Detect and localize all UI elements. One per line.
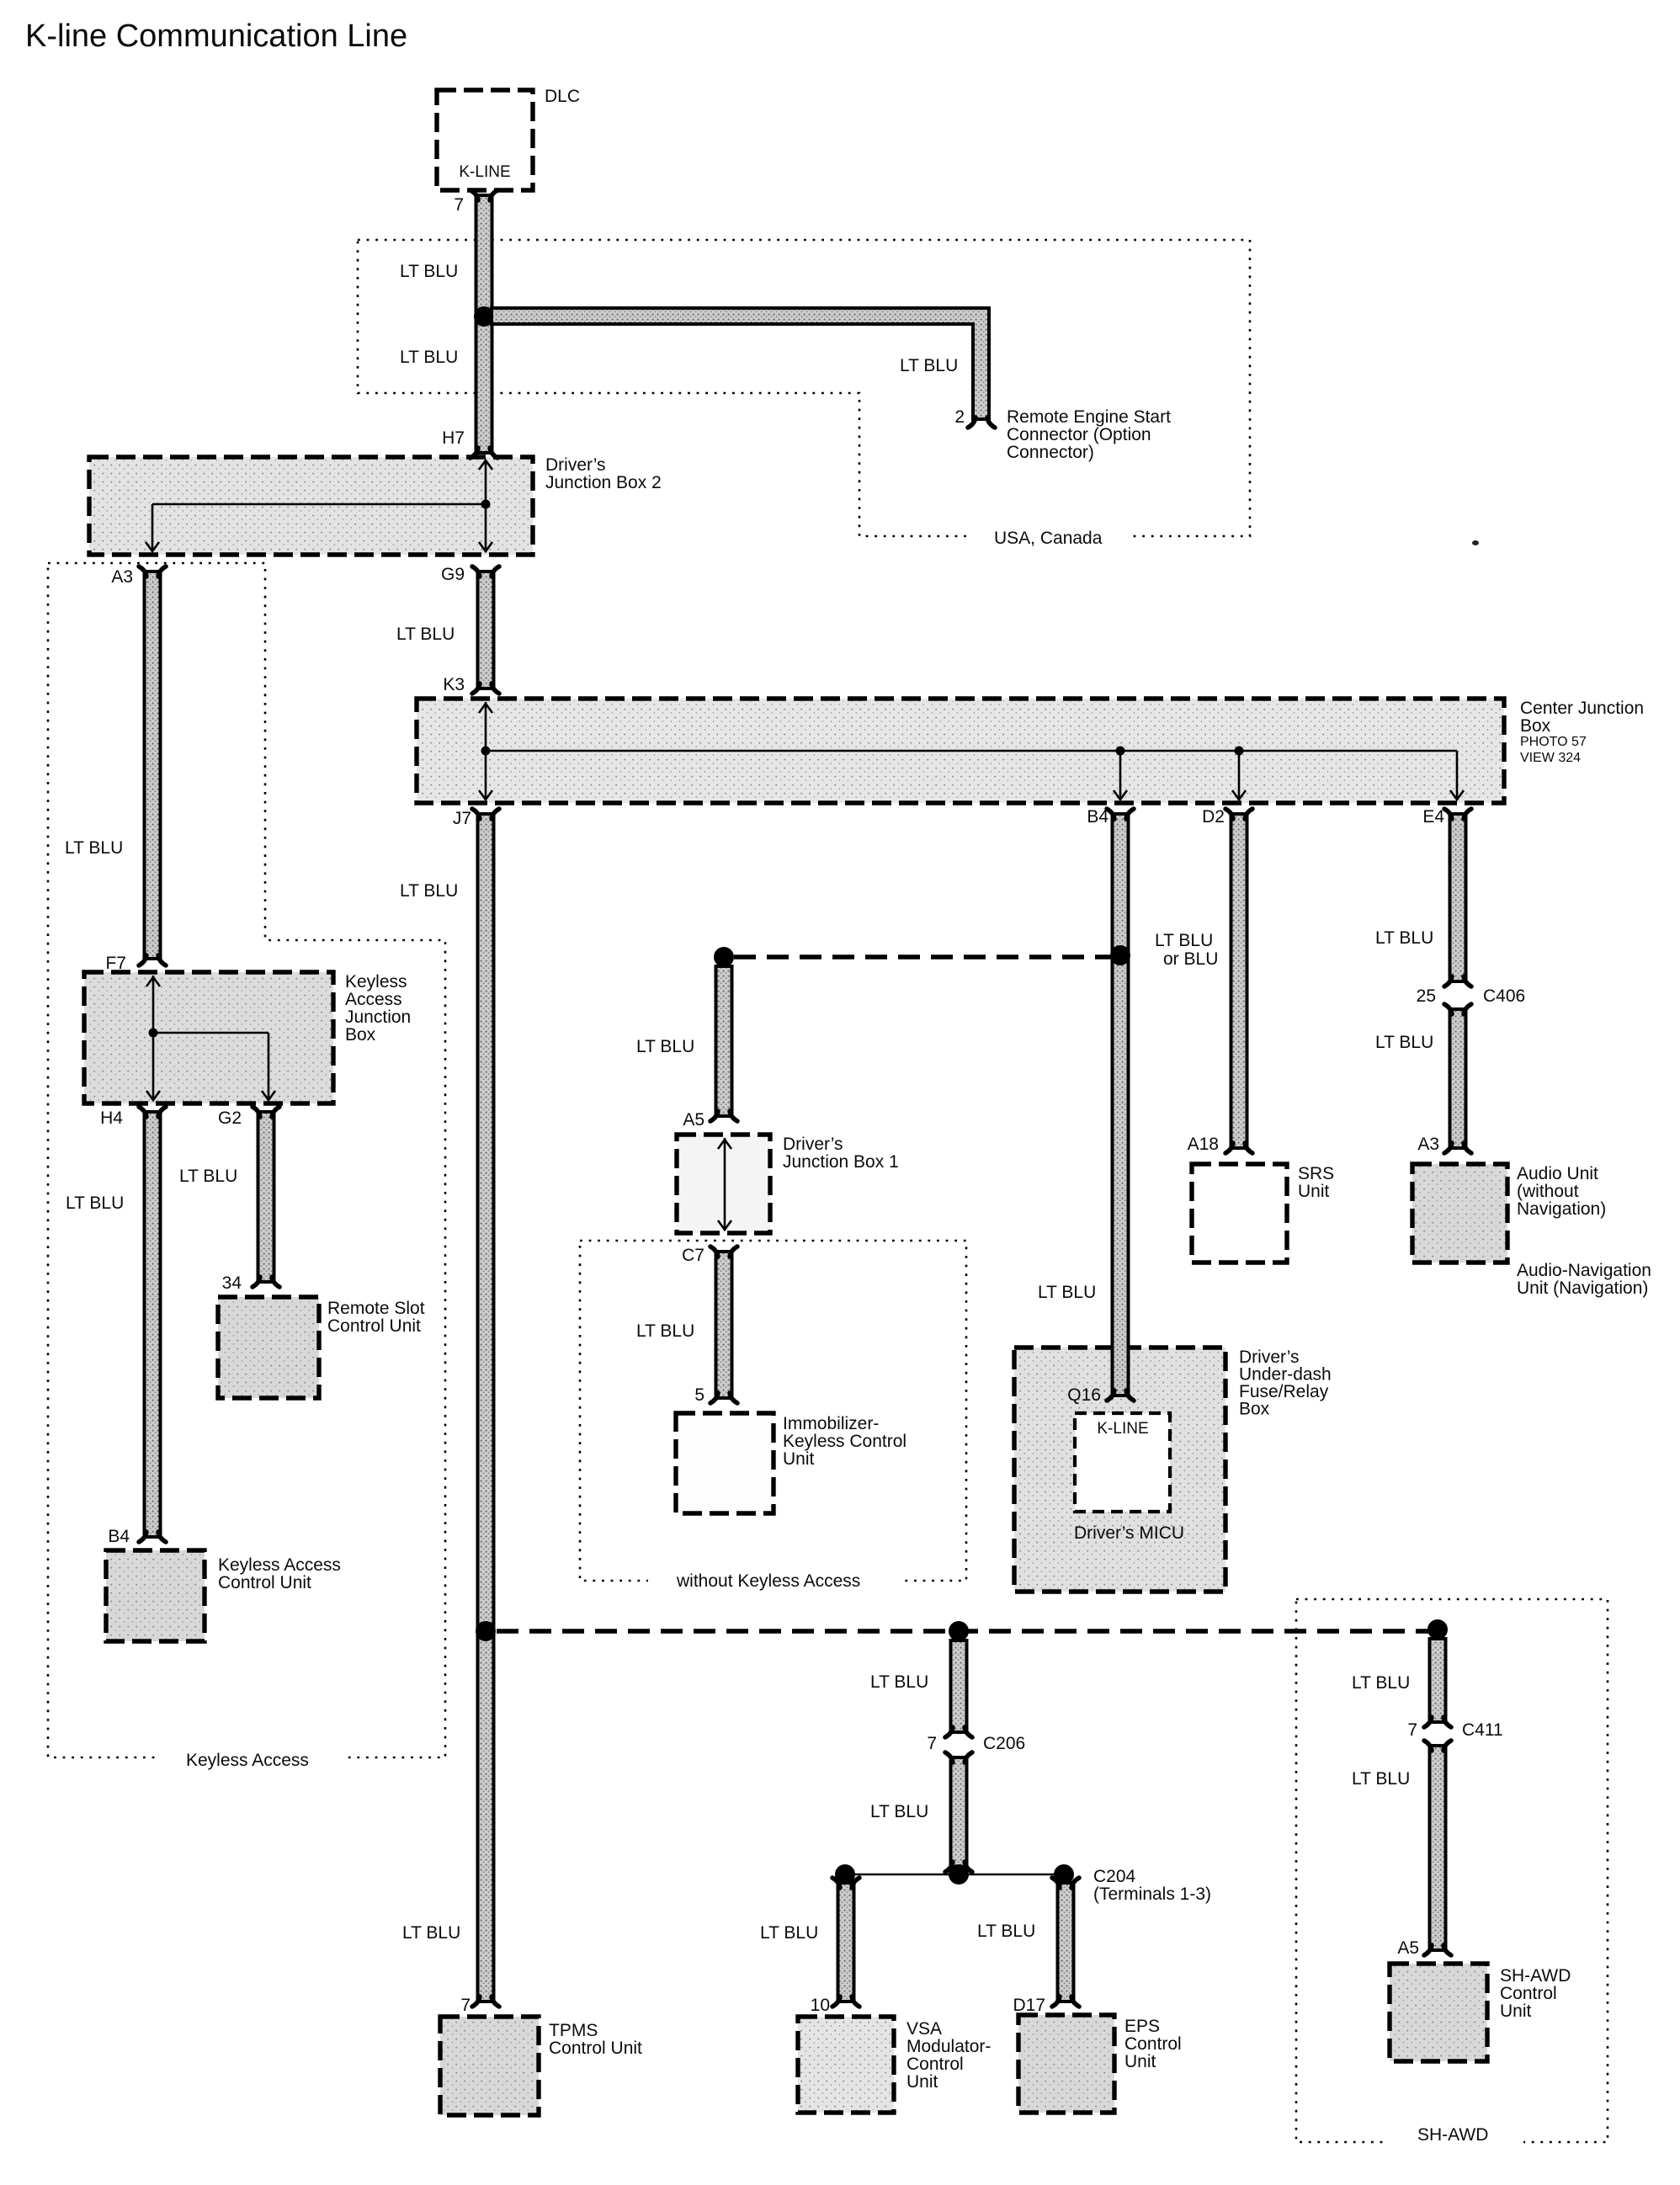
svg-text:7: 7 [927, 1734, 937, 1753]
svg-text:LT BLU: LT BLU [400, 881, 458, 901]
svg-text:Unit: Unit [1124, 2052, 1156, 2071]
svg-text:Unit: Unit [783, 1449, 815, 1469]
svg-text:(Terminals 1-3): (Terminals 1-3) [1093, 1885, 1211, 1904]
svg-text:LT BLU: LT BLU [760, 1923, 818, 1943]
svg-text:Unit: Unit [1500, 2002, 1532, 2021]
svg-text:EPS: EPS [1124, 2017, 1160, 2036]
svg-text:C206: C206 [983, 1734, 1025, 1753]
svg-text:LT BLU: LT BLU [636, 1321, 694, 1341]
svg-text:Driver’s: Driver’s [545, 455, 606, 475]
svg-text:E4: E4 [1422, 807, 1444, 827]
svg-text:LT BLU: LT BLU [900, 356, 958, 375]
svg-text:A3: A3 [1417, 1135, 1439, 1154]
svg-text:Driver’s: Driver’s [783, 1135, 843, 1154]
svg-text:LT BLU: LT BLU [396, 625, 455, 644]
svg-text:7: 7 [1407, 1720, 1417, 1740]
svg-text:Control Unit: Control Unit [549, 2039, 642, 2058]
svg-text:Unit: Unit [1298, 1182, 1330, 1201]
svg-text:A5: A5 [683, 1110, 704, 1130]
svg-text:Junction: Junction [345, 1007, 411, 1027]
svg-text:K-LINE: K-LINE [1097, 1420, 1148, 1438]
svg-text:Unit (Navigation): Unit (Navigation) [1517, 1279, 1648, 1298]
svg-text:B4: B4 [108, 1527, 130, 1546]
svg-text:Connector): Connector) [1007, 443, 1094, 462]
svg-text:A18: A18 [1188, 1135, 1219, 1154]
svg-text:SRS: SRS [1298, 1164, 1334, 1183]
svg-text:7: 7 [460, 1996, 471, 2015]
svg-text:LT BLU: LT BLU [1352, 1673, 1410, 1693]
svg-text:J7: J7 [453, 809, 471, 828]
svg-text:VIEW 324: VIEW 324 [1520, 751, 1581, 765]
svg-text:Modulator-: Modulator- [906, 2037, 991, 2056]
svg-text:Control: Control [1500, 1984, 1557, 2003]
svg-text:10: 10 [811, 1996, 830, 2015]
svg-text:B4: B4 [1087, 807, 1108, 827]
svg-text:LT BLU: LT BLU [977, 1922, 1035, 1941]
svg-text:LT BLU: LT BLU [870, 1672, 928, 1692]
svg-text:LT BLU: LT BLU [402, 1923, 460, 1943]
svg-text:LT BLU: LT BLU [65, 838, 123, 858]
svg-text:Keyless Access: Keyless Access [218, 1555, 341, 1575]
svg-text:Center Junction: Center Junction [1520, 699, 1644, 718]
svg-text:LT BLU: LT BLU [400, 262, 458, 281]
svg-text:LT BLU: LT BLU [179, 1167, 237, 1186]
svg-text:TPMS: TPMS [549, 2021, 598, 2040]
svg-text:LT BLU: LT BLU [1375, 1033, 1433, 1052]
svg-text:Keyless Control: Keyless Control [783, 1432, 906, 1451]
svg-text:D17: D17 [1013, 1996, 1045, 2015]
svg-text:USA, Canada: USA, Canada [994, 529, 1103, 548]
svg-text:Audio-Navigation: Audio-Navigation [1517, 1261, 1651, 1280]
svg-text:or BLU: or BLU [1163, 949, 1218, 969]
svg-text:Remote Engine Start: Remote Engine Start [1007, 407, 1171, 427]
svg-text:Immobilizer-: Immobilizer- [783, 1414, 879, 1433]
svg-text:7: 7 [454, 195, 464, 215]
svg-text:F7: F7 [105, 954, 126, 973]
svg-text:LT BLU: LT BLU [400, 348, 458, 367]
svg-text:25: 25 [1417, 986, 1436, 1006]
svg-text:VSA: VSA [906, 2019, 942, 2039]
svg-text:LT BLU: LT BLU [1375, 928, 1433, 948]
svg-text:without Keyless Access: without Keyless Access [676, 1571, 860, 1591]
svg-text:Box: Box [1239, 1400, 1270, 1419]
svg-text:LT BLU: LT BLU [1352, 1769, 1410, 1789]
svg-text:K-line Communication Line: K-line Communication Line [25, 19, 407, 54]
svg-text:Box: Box [1520, 716, 1551, 736]
svg-text:LT BLU: LT BLU [66, 1194, 124, 1213]
svg-text:SH-AWD: SH-AWD [1417, 2125, 1488, 2145]
svg-text:A5: A5 [1397, 1938, 1419, 1958]
svg-text:C411: C411 [1462, 1720, 1503, 1740]
svg-text:Unit: Unit [906, 2072, 938, 2092]
svg-text:Junction Box 2: Junction Box 2 [545, 473, 662, 492]
svg-text:PHOTO 57: PHOTO 57 [1520, 735, 1587, 749]
svg-text:Q16: Q16 [1067, 1385, 1101, 1405]
svg-text:Box: Box [345, 1025, 376, 1045]
svg-text:Control Unit: Control Unit [218, 1573, 311, 1592]
svg-text:2: 2 [954, 407, 965, 427]
svg-text:D2: D2 [1202, 807, 1225, 827]
svg-text:(without: (without [1517, 1182, 1579, 1201]
svg-text:34: 34 [222, 1273, 242, 1293]
svg-text:LT BLU: LT BLU [870, 1802, 928, 1821]
svg-text:LT BLU: LT BLU [1155, 931, 1213, 950]
svg-text:Junction Box 1: Junction Box 1 [783, 1152, 899, 1172]
svg-text:K-LINE: K-LINE [459, 163, 510, 181]
svg-text:DLC: DLC [545, 87, 580, 106]
svg-text:LT BLU: LT BLU [1038, 1283, 1096, 1302]
svg-text:Access: Access [345, 990, 402, 1009]
svg-text:Connector (Option: Connector (Option [1007, 425, 1151, 444]
svg-text:H4: H4 [100, 1108, 123, 1128]
svg-text:Control: Control [906, 2055, 964, 2074]
svg-text:LT BLU: LT BLU [636, 1037, 694, 1056]
svg-text:5: 5 [694, 1385, 704, 1405]
svg-text:C7: C7 [682, 1246, 704, 1265]
svg-text:Control: Control [1124, 2034, 1182, 2054]
svg-text:Control Unit: Control Unit [327, 1316, 421, 1336]
svg-text:Keyless: Keyless [345, 972, 407, 991]
svg-text:Driver’s MICU: Driver’s MICU [1074, 1523, 1184, 1543]
svg-text:C204: C204 [1093, 1867, 1136, 1886]
svg-text:H7: H7 [442, 428, 465, 448]
svg-text:Audio Unit: Audio Unit [1517, 1164, 1598, 1183]
svg-text:SH-AWD: SH-AWD [1500, 1966, 1571, 1986]
svg-text:Keyless Access: Keyless Access [186, 1751, 309, 1770]
svg-text:G9: G9 [441, 565, 465, 584]
svg-text:Navigation): Navigation) [1517, 1199, 1606, 1219]
svg-text:A3: A3 [111, 567, 133, 587]
svg-text:C406: C406 [1483, 986, 1525, 1006]
svg-text:Remote Slot: Remote Slot [327, 1299, 425, 1318]
svg-text:G2: G2 [218, 1108, 242, 1128]
svg-text:K3: K3 [443, 675, 465, 694]
